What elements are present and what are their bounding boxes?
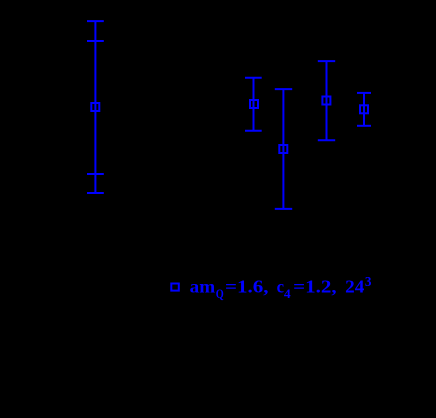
error bar 2 bottom cap [245, 130, 262, 132]
error bar 3 top cap [275, 88, 292, 90]
error bar 3 bottom cap [275, 208, 292, 210]
data point 5 square marker [360, 105, 368, 113]
error bar 1 inner bottom cap [87, 173, 104, 175]
error bar 2 top cap [245, 77, 262, 79]
error bar 2 vertical line [253, 78, 255, 131]
error bar 1 outer bottom cap [87, 192, 104, 194]
error bar 4 vertical line [326, 61, 328, 140]
error bar 4 bottom cap [318, 139, 335, 141]
error bar 4 top cap [318, 60, 335, 62]
error bar 1 inner top cap [87, 40, 104, 42]
error bar 5 bottom cap [357, 125, 371, 127]
legend square marker [171, 284, 179, 291]
data point 2 square marker [250, 100, 258, 108]
error bar 1 vertical line [94, 21, 96, 193]
data point 1 square marker [91, 103, 99, 111]
data point 4 square marker [322, 97, 330, 105]
error bar 3 vertical line [282, 89, 284, 209]
error bar 5 top cap [357, 92, 371, 94]
error bar 5 vertical line [363, 93, 365, 126]
data point 3 square marker [279, 145, 287, 153]
error bar 1 outer top cap [87, 20, 104, 22]
